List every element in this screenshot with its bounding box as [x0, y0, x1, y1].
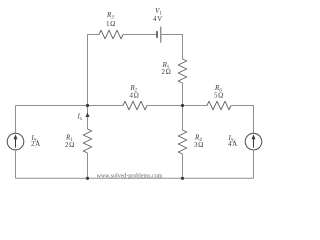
wire bottom: [16, 177, 254, 179]
node D dot: [181, 104, 184, 107]
svg-text:2 Ω: 2 Ω: [65, 141, 74, 149]
svg-text:www.solved-problems.com: www.solved-problems.com: [97, 173, 163, 179]
wire IS1 to bottom-left corner: [15, 150, 17, 178]
svg-text:2 A: 2 A: [31, 140, 40, 148]
wire top-left segment: [88, 35, 100, 106]
IS2 arrow: [252, 134, 256, 147]
svg-text:1 Ω: 1 Ω: [106, 20, 115, 28]
node H dot: [86, 177, 89, 180]
wire left side down to IS1: [15, 106, 17, 134]
wire R5 to middle node: [182, 83, 184, 106]
svg-text:2 Ω: 2 Ω: [162, 68, 171, 76]
node I dot: [181, 177, 184, 180]
resistor R5: [178, 59, 187, 83]
current arrow Ix: [85, 113, 89, 118]
IS1 arrow: [14, 134, 18, 147]
node C dot: [86, 104, 89, 107]
svg-text:4 A: 4 A: [228, 140, 237, 148]
current source IS2 circle: [245, 133, 262, 150]
resistor R4: [178, 130, 187, 154]
wire node C down to R1: [87, 106, 89, 130]
wire middle-left: [16, 105, 124, 107]
resistor R1: [83, 129, 92, 153]
svg-text:4 V: 4 V: [153, 15, 162, 23]
resistor R6: [207, 101, 231, 110]
wire R3 to V1: [123, 34, 157, 36]
current source IS1 circle: [7, 133, 24, 150]
wire node D down to R4: [182, 106, 184, 131]
battery V1 short plate: [156, 31, 158, 38]
wire V1 to top-right corner and down: [161, 35, 183, 60]
svg-text:5 Ω: 5 Ω: [214, 91, 223, 99]
svg-text:4 Ω: 4 Ω: [130, 91, 139, 99]
wire R1 to bottom: [87, 153, 89, 178]
resistor R2: [123, 101, 147, 110]
wire R4 to bottom: [182, 154, 184, 178]
wire IS2 to bottom-right corner: [253, 150, 255, 178]
svg-text:3 Ω: 3 Ω: [194, 141, 203, 149]
wire R2 to node D: [147, 105, 207, 107]
wire R6 to right corner: [231, 106, 254, 134]
battery V1 long plate: [160, 27, 162, 43]
resistor R3: [99, 30, 123, 39]
